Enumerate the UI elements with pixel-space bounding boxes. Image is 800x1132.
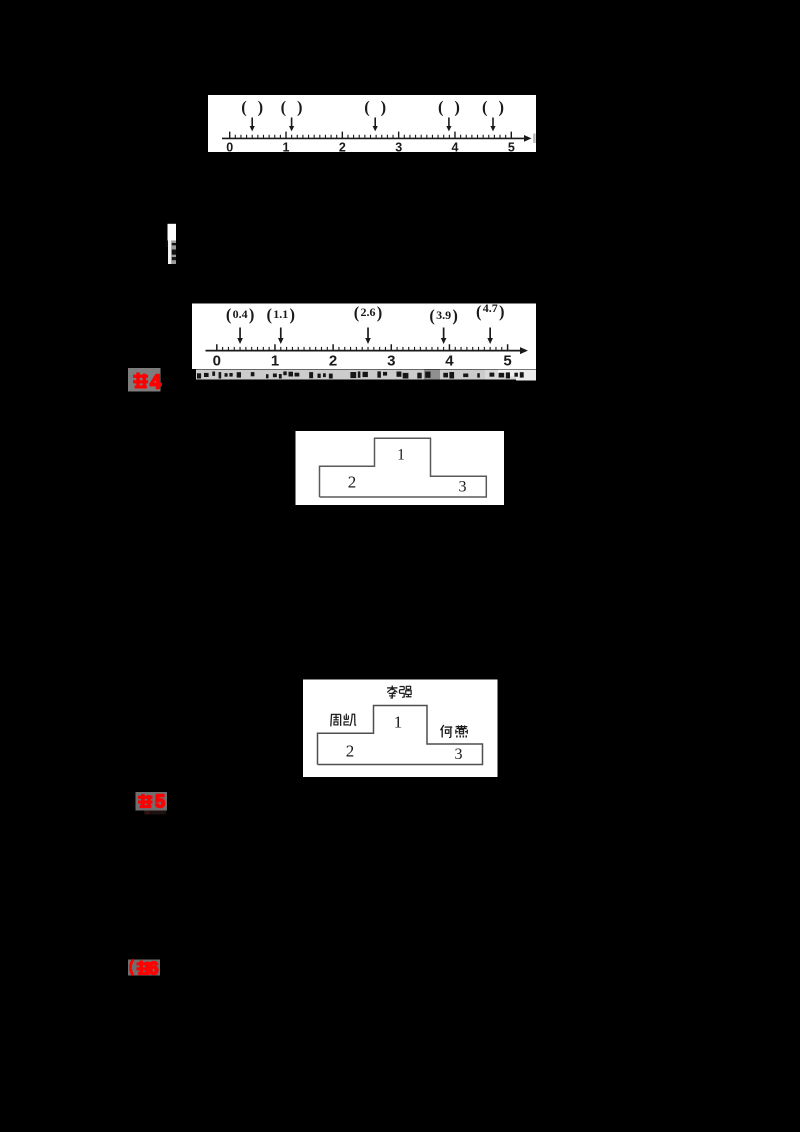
svg-text:5: 5 bbox=[508, 140, 515, 154]
svg-text:0.4: 0.4 bbox=[233, 307, 248, 321]
svg-text:3: 3 bbox=[459, 479, 467, 496]
svg-text:1: 1 bbox=[271, 353, 279, 370]
svg-text:5: 5 bbox=[503, 353, 511, 370]
svg-text:(: ( bbox=[226, 305, 232, 324]
svg-text:2.6: 2.6 bbox=[361, 305, 376, 319]
svg-text:): ) bbox=[290, 305, 296, 324]
svg-text:3.9: 3.9 bbox=[436, 308, 451, 322]
svg-text:1: 1 bbox=[283, 140, 290, 154]
svg-text:): ) bbox=[452, 306, 458, 325]
svg-text:4: 4 bbox=[445, 353, 454, 370]
svg-text:1: 1 bbox=[397, 446, 405, 463]
svg-text:): ) bbox=[249, 305, 255, 324]
svg-text:): ) bbox=[297, 97, 303, 116]
svg-text:4: 4 bbox=[452, 140, 459, 154]
svg-text:0: 0 bbox=[226, 140, 233, 154]
svg-text:(: ( bbox=[354, 303, 360, 322]
svg-text:2: 2 bbox=[346, 742, 355, 761]
svg-text:(: ( bbox=[241, 97, 247, 116]
svg-text:3: 3 bbox=[455, 746, 463, 763]
svg-text:6: 6 bbox=[148, 959, 158, 979]
svg-text:): ) bbox=[258, 97, 264, 116]
svg-text:): ) bbox=[377, 303, 383, 322]
svg-text:0: 0 bbox=[213, 353, 221, 370]
svg-text:(: ( bbox=[267, 305, 273, 324]
svg-text:3: 3 bbox=[395, 140, 402, 154]
svg-text:): ) bbox=[498, 97, 504, 116]
svg-text:1.1: 1.1 bbox=[273, 307, 288, 321]
svg-text:3: 3 bbox=[387, 353, 395, 370]
svg-text:(: ( bbox=[429, 306, 435, 325]
svg-text:2: 2 bbox=[329, 353, 337, 370]
svg-text:4: 4 bbox=[150, 372, 162, 394]
svg-text:): ) bbox=[499, 302, 505, 321]
svg-text:): ) bbox=[454, 97, 460, 116]
svg-text:(: ( bbox=[438, 97, 444, 116]
svg-text:): ) bbox=[381, 97, 387, 116]
svg-text:(: ( bbox=[281, 97, 287, 116]
svg-text:(: ( bbox=[482, 97, 488, 116]
svg-text:(: ( bbox=[476, 302, 482, 321]
svg-text:1: 1 bbox=[394, 713, 403, 732]
svg-text:5: 5 bbox=[155, 792, 165, 812]
svg-text:4.7: 4.7 bbox=[483, 301, 498, 315]
svg-text:2: 2 bbox=[348, 472, 357, 491]
svg-text:(: ( bbox=[364, 97, 370, 116]
svg-text:2: 2 bbox=[339, 140, 346, 154]
